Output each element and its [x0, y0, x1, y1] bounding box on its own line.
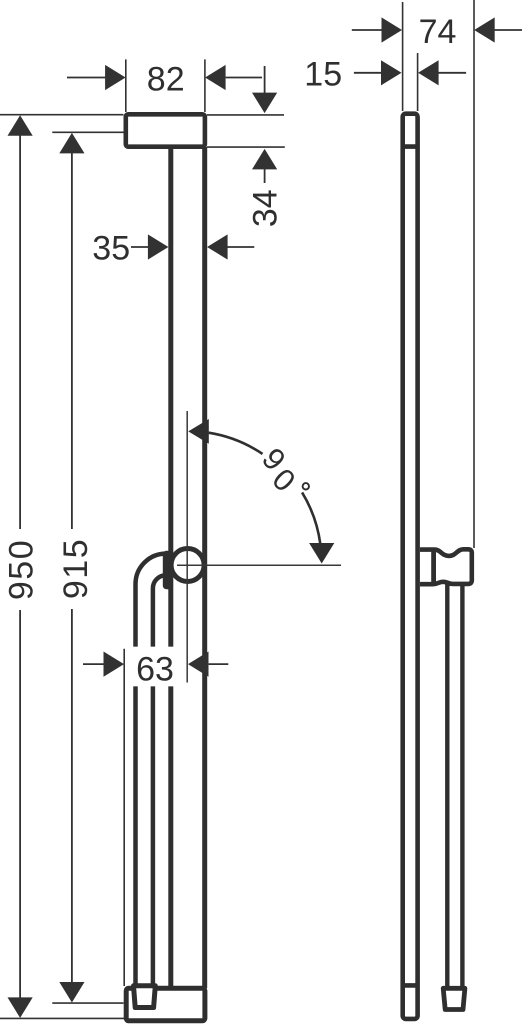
slider knob side view [420, 549, 472, 584]
dimension 35 [131, 234, 254, 259]
svg-text:35: 35 [92, 229, 130, 267]
svg-text:63: 63 [136, 650, 174, 688]
profile bar side view [403, 114, 418, 1019]
hose connector front view [134, 986, 156, 1008]
90 degree arc [188, 419, 334, 564]
holder ring front view [171, 549, 204, 582]
svg-text:82: 82 [147, 61, 185, 99]
hose front view [136, 554, 167, 984]
glide bar front view [171, 147, 205, 988]
hose side view [447, 585, 462, 987]
63 text white box [127, 647, 183, 686]
slider tab front view [163, 551, 173, 589]
dimension 74 [352, 0, 522, 548]
svg-text:15: 15 [304, 55, 342, 93]
svg-text:915: 915 [57, 538, 95, 599]
dimension 63 [83, 649, 228, 986]
cap divider side view [401, 983, 420, 988]
bracket divider side view [401, 144, 420, 149]
wall bracket front view [126, 114, 205, 146]
vertical centerline [186, 411, 188, 683]
dimension 915 [52, 132, 123, 1003]
svg-text:74: 74 [419, 13, 457, 51]
dimension 950 [0, 115, 124, 1019]
bottom end cap front view [126, 988, 205, 1021]
svg-text:950: 950 [3, 539, 41, 600]
dimension 82 [67, 59, 262, 112]
dimension 34 [207, 66, 285, 183]
hose connector side view [443, 988, 465, 1009]
knob internal line [431, 552, 436, 584]
svg-text:34: 34 [246, 189, 284, 227]
dimension 15 [354, 53, 466, 111]
horizontal centerline [177, 564, 341, 566]
